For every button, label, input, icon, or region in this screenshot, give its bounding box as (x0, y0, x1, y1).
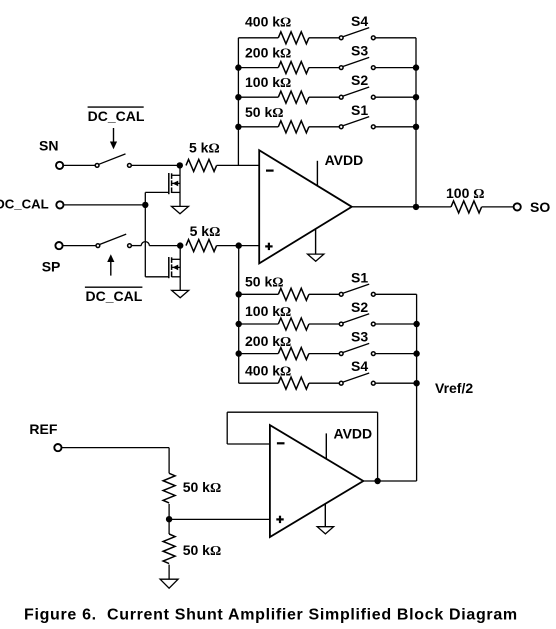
svg-text:S3: S3 (351, 43, 368, 59)
svg-text:200 kΩ: 200 kΩ (245, 333, 291, 350)
svg-text:100 kΩ: 100 kΩ (245, 303, 291, 320)
svg-text:Vref/2: Vref/2 (435, 380, 473, 396)
svg-text:SP: SP (42, 259, 61, 275)
svg-text:DC_CAL: DC_CAL (0, 197, 49, 212)
svg-text:S2: S2 (351, 299, 368, 315)
svg-text:5 kΩ: 5 kΩ (190, 223, 221, 240)
svg-text:AVDD: AVDD (325, 152, 364, 168)
svg-text:50 kΩ: 50 kΩ (183, 542, 221, 559)
svg-text:REF: REF (29, 421, 57, 437)
svg-text:100 Ω: 100 Ω (446, 185, 484, 202)
svg-text:50 kΩ: 50 kΩ (245, 274, 283, 291)
svg-text:200 kΩ: 200 kΩ (245, 45, 291, 62)
svg-text:Figure 6. Current Shunt Ampli: Figure 6. Current Shunt Amplifier Simpli… (24, 607, 518, 624)
svg-text:DC_CAL: DC_CAL (88, 108, 145, 124)
svg-text:S1: S1 (351, 269, 368, 285)
svg-text:50 kΩ: 50 kΩ (183, 479, 221, 496)
svg-text:100 kΩ: 100 kΩ (245, 74, 291, 91)
svg-text:DC_CAL: DC_CAL (86, 288, 143, 304)
svg-text:S4: S4 (351, 13, 368, 29)
svg-text:400 kΩ: 400 kΩ (245, 13, 291, 30)
svg-text:400 kΩ: 400 kΩ (245, 362, 291, 379)
svg-text:SO: SO (530, 199, 550, 215)
svg-text:S1: S1 (351, 102, 368, 118)
svg-text:SN: SN (39, 138, 58, 154)
svg-text:50 kΩ: 50 kΩ (245, 104, 283, 121)
svg-text:5 kΩ: 5 kΩ (189, 139, 220, 156)
svg-text:AVDD: AVDD (334, 426, 373, 442)
svg-text:S4: S4 (351, 358, 368, 374)
svg-text:S2: S2 (351, 72, 368, 88)
svg-text:S3: S3 (351, 329, 368, 345)
